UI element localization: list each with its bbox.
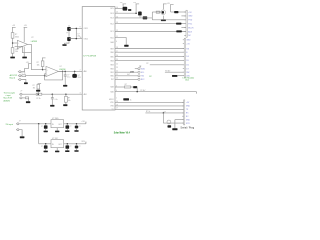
svg-text:C?: C? — [79, 146, 81, 148]
svg-text:DTR: DTR — [186, 123, 190, 125]
svg-text:10k: 10k — [15, 51, 18, 53]
svg-text:GND: GND — [186, 106, 191, 108]
svg-text:C?: C? — [67, 75, 69, 77]
power tap +5V conn — [170, 4, 174, 6]
power tick flag column — [139, 65, 141, 67]
svg-text:RC1: RC1 — [110, 31, 113, 33]
svg-text:SCL: SCL — [141, 72, 144, 74]
svg-text:RB5: RB5 — [110, 56, 113, 58]
wire RC0 stub — [115, 38, 126, 45]
pin J6 +5V — [183, 43, 184, 45]
pin J5 +5V — [184, 11, 186, 13]
svg-text:J?: J? — [20, 90, 22, 92]
svg-text:D4: D4 — [186, 56, 188, 58]
svg-text:MCLR: MCLR — [109, 99, 114, 101]
wire +5V to connector — [170, 5, 172, 12]
wire VDD net — [115, 101, 184, 103]
wire T1 collector — [122, 4, 124, 7]
wire thermo signal — [22, 93, 36, 95]
svg-text:+5V: +5V — [186, 102, 190, 104]
connector J7 body — [184, 100, 185, 125]
svg-text:10k: 10k — [37, 65, 40, 67]
svg-text:1: 1 — [116, 98, 117, 100]
wire R14 out — [131, 86, 134, 88]
resistor R1 — [11, 33, 14, 39]
svg-text:R?: R? — [146, 63, 148, 65]
svg-text:R?: R? — [68, 98, 70, 100]
ground (serial) — [172, 128, 177, 130]
svg-text:+: + — [18, 43, 19, 45]
net flag RX2 — [138, 78, 140, 80]
svg-text:R?: R? — [33, 85, 35, 87]
wire osc mid — [68, 31, 70, 37]
svg-text:330k: 330k — [15, 36, 19, 38]
net +5V flag — [85, 122, 87, 124]
svg-text:PGD: PGD — [188, 20, 193, 22]
power tap bias — [28, 63, 32, 65]
svg-text:RB6: RB6 — [110, 52, 113, 54]
node rail2 — [135, 12, 137, 14]
svg-text:C?: C? — [41, 146, 43, 148]
ferrite L1 — [174, 11, 178, 13]
ground (U1A V-) — [22, 57, 27, 59]
resistor R14 — [124, 86, 130, 88]
pin J6 LED — [183, 75, 184, 77]
wire pin28 stub — [181, 27, 186, 29]
svg-text:+5V: +5V — [186, 43, 190, 45]
svg-text:5V1: 5V1 — [78, 77, 81, 79]
connector J3 pin 2 — [18, 97, 21, 99]
svg-text:SDA: SDA — [141, 67, 145, 70]
svg-text:GND: GND — [188, 16, 193, 18]
wire signal ACS — [26, 75, 45, 77]
wire riser RA3-RA2 — [136, 87, 138, 92]
wire OSC1 — [69, 27, 82, 29]
pin J6 RW — [183, 71, 184, 73]
wire V+ U1A — [23, 27, 25, 42]
ground (C8) — [65, 130, 69, 132]
resistor R6 — [25, 97, 28, 99]
resistor R8 — [65, 94, 67, 96]
svg-text:NC: NC — [188, 35, 191, 37]
wire 9V — [19, 123, 51, 125]
svg-text:RA2: RA2 — [110, 90, 113, 93]
pin J7 +5V — [182, 101, 183, 103]
resistor R10 — [143, 16, 148, 19]
wire osc top link — [69, 27, 76, 29]
capacitor C11 — [66, 144, 68, 146]
wire osc right rail — [75, 28, 77, 38]
wire RB7 net — [115, 48, 184, 50]
svg-text:RW: RW — [186, 72, 189, 74]
svg-text:RA3: RA3 — [110, 86, 113, 89]
ground (C9) — [74, 130, 78, 132]
wire RC2 net — [115, 23, 186, 25]
svg-text:GND: GND — [186, 40, 191, 42]
transistor Q4 — [167, 120, 171, 124]
wire riser to pin 19.8 — [151, 18, 153, 20]
svg-text:0.1u: 0.1u — [67, 77, 70, 79]
ground (C12) — [74, 150, 78, 152]
svg-text:NC: NC — [186, 116, 189, 118]
label bold (wire 31.5) — [176, 30, 182, 32]
svg-text:2: 2 — [80, 70, 81, 72]
svg-text:R?: R? — [125, 84, 127, 86]
capacitor C6 — [51, 94, 53, 98]
power rail +5V tap (U1A V+) — [24, 26, 28, 28]
node cap C11 — [67, 143, 69, 145]
wire R4 lower — [42, 67, 44, 70]
transistor Q2 — [138, 12, 142, 16]
wire to +input U1A — [13, 42, 18, 44]
svg-text:D7: D7 — [186, 68, 188, 70]
net flag SDA — [138, 68, 140, 70]
wire J2-R3 — [21, 75, 22, 77]
svg-text:C?: C? — [70, 146, 72, 148]
connector J3 pin 1 — [18, 93, 21, 95]
resistor R4 — [41, 61, 44, 67]
ground (J3) — [26, 101, 30, 103]
svg-text:Serial / Prog: Serial / Prog — [180, 126, 195, 129]
regulator U3 3.3V — [51, 140, 64, 148]
wire RA3 net — [115, 86, 124, 88]
wire TX net — [115, 108, 184, 110]
svg-text:MCLR: MCLR — [188, 27, 194, 29]
capacitor C9 — [76, 124, 78, 126]
svg-text:+5V: +5V — [188, 12, 192, 14]
svg-text:4k7: 4k7 — [127, 74, 130, 76]
power tap T1 — [123, 3, 127, 5]
wire flag TX2 — [115, 75, 138, 77]
op-amp U1A — [17, 40, 27, 48]
svg-text:1M: 1M — [33, 87, 36, 89]
svg-text:AN0: AN0 — [84, 70, 87, 73]
svg-text:Q?: Q? — [164, 111, 166, 113]
svg-text:9: 9 — [80, 27, 81, 29]
svg-text:GND: GND — [186, 119, 191, 121]
pin J5 NC — [184, 34, 186, 36]
net flag (RC0) — [124, 45, 128, 47]
pin J6 E — [183, 51, 184, 53]
ground (C7) — [44, 131, 48, 133]
node output-D — [74, 71, 76, 73]
svg-text:C?: C? — [41, 126, 43, 128]
svg-text:D?: D? — [78, 75, 80, 77]
svg-text:RB2: RB2 — [110, 68, 113, 70]
power tap rail2 — [136, 3, 140, 5]
connector J4 pin 1 — [15, 123, 18, 125]
wire RC1 net — [115, 31, 186, 33]
wire J3 pin2 — [22, 97, 25, 99]
power tap R4 — [42, 57, 46, 59]
svg-text:+: + — [47, 70, 48, 72]
node cap C7 — [45, 123, 47, 125]
wire -input stub — [15, 45, 18, 47]
svg-text:LCD: LCD — [130, 71, 135, 73]
node cap C12 — [76, 143, 78, 145]
wire riser serial — [162, 113, 164, 123]
node 9V branch — [38, 123, 40, 125]
node thermo-R8 — [65, 93, 67, 95]
wire J2 pin1 to +5V tap — [21, 64, 29, 72]
svg-text:23: 23 — [116, 67, 118, 69]
svg-text:Board: Board — [10, 78, 15, 80]
wire reference from U1A — [31, 53, 42, 70]
pin J6 D7 — [183, 68, 184, 70]
pin J7 DTR — [182, 122, 183, 124]
svg-text:RC3: RC3 — [110, 18, 113, 20]
svg-text:16x2: 16x2 — [185, 80, 189, 82]
ground (C5) — [63, 85, 67, 87]
net tick end — [195, 92, 197, 94]
svg-text:24: 24 — [116, 63, 118, 65]
resistor R3 — [22, 75, 26, 77]
net flag TX2 — [138, 75, 140, 77]
wire 3V3 out — [64, 143, 86, 145]
svg-text:C?: C? — [78, 34, 80, 36]
capacitor C8 — [66, 124, 68, 126]
wire 9V to reg2 — [38, 124, 40, 144]
node output-C — [64, 71, 66, 73]
node feedback — [62, 71, 64, 73]
svg-text:RB7: RB7 — [110, 48, 113, 50]
ground (C11) — [65, 150, 69, 152]
svg-text:AN1: AN1 — [84, 93, 87, 96]
resistor R11 — [156, 11, 159, 13]
svg-text:AUX: AUX — [188, 30, 192, 33]
label GND bold (LCD) — [172, 75, 177, 77]
wire flag RX2 — [115, 78, 138, 80]
svg-text:RC2: RC2 — [110, 23, 113, 25]
label bold (wire 23.7) — [176, 23, 181, 25]
pin J6 RS — [183, 48, 184, 50]
wire RB5 net — [115, 55, 184, 57]
svg-text:AD8495: AD8495 — [4, 99, 11, 102]
ground (Q3) — [161, 19, 166, 21]
pin J5 AUX — [184, 31, 186, 33]
svg-text:6: 6 — [116, 41, 117, 43]
svg-text:+5V: +5V — [81, 121, 85, 123]
pin J6 D6 — [183, 64, 184, 66]
svg-text:3: 3 — [80, 92, 81, 94]
svg-text:LM358: LM358 — [31, 41, 38, 43]
svg-text:TX2: TX2 — [141, 76, 144, 78]
svg-text:D6: D6 — [186, 65, 188, 67]
ground (C6) — [50, 105, 54, 107]
svg-text:OUT: OUT — [58, 124, 61, 126]
svg-text:9V input: 9V input — [6, 123, 14, 126]
svg-text:C?: C? — [79, 126, 81, 128]
svg-text:10: 10 — [80, 37, 82, 39]
svg-text:IC? PIC18F258: IC? PIC18F258 — [83, 55, 96, 57]
wire J4 gnd — [19, 130, 22, 137]
svg-text:OSC1: OSC1 — [84, 28, 88, 30]
ground (rail1) — [10, 57, 15, 59]
ground (R8) — [63, 104, 67, 106]
ground (osc) — [62, 44, 66, 46]
wire flag SDA — [135, 68, 138, 70]
svg-text:U? 7805: U? 7805 — [52, 118, 58, 120]
transistor Q1 — [123, 7, 128, 11]
op-amp U1B — [46, 66, 58, 76]
svg-text:RB1: RB1 — [110, 72, 113, 74]
wire RA2 net long — [115, 91, 196, 93]
power tap Q3 — [163, 3, 167, 5]
pin J6 D5 — [183, 59, 184, 61]
ground (J2) — [24, 82, 28, 84]
wire Q3 base — [152, 11, 161, 13]
IC U4 body — [82, 7, 115, 110]
svg-text:0.1u: 0.1u — [55, 99, 58, 101]
wire RB4 net — [115, 59, 184, 61]
wire J2 pin3 to ground — [21, 80, 26, 83]
svg-text:RC4: RC4 — [110, 13, 113, 15]
wire DTR net — [163, 122, 183, 124]
pin J7 NC — [182, 115, 183, 117]
resistor R9 — [128, 9, 131, 11]
svg-text:RB3: RB3 — [110, 65, 113, 67]
svg-text:Y?: Y? — [66, 32, 68, 34]
connector J2 pin 3 — [18, 79, 19, 81]
wire RC4 net — [115, 12, 136, 14]
connector J5 body — [186, 10, 187, 37]
node serial — [163, 112, 165, 114]
net +3V3 flag — [85, 142, 87, 144]
svg-text:PGC: PGC — [188, 23, 193, 25]
capacitor C10 — [45, 144, 47, 146]
wire pin16 stub — [181, 15, 186, 17]
wire riser to Q3 base — [151, 12, 153, 18]
wire rail1 lower — [12, 53, 14, 56]
svg-text:3V3: 3V3 — [81, 141, 84, 143]
node cap C8 — [67, 123, 69, 125]
ground (U2) — [56, 128, 58, 131]
regulator U2 7805 — [51, 120, 64, 128]
pin J7 RX — [182, 112, 183, 114]
resistor R2 — [11, 48, 14, 54]
svg-text:U?: U? — [60, 66, 62, 68]
node thermo-C — [52, 93, 54, 95]
resistor R5 inline — [36, 93, 42, 95]
node -in U1B — [44, 75, 46, 77]
ground (U3) — [56, 148, 58, 151]
svg-text:U?: U? — [31, 37, 33, 39]
svg-text:RB4: RB4 — [110, 60, 113, 62]
pin J5 PGD — [184, 19, 186, 21]
wire feedback U1B — [45, 71, 63, 80]
wire RC3 net — [115, 17, 152, 19]
net flag (MCLR) — [123, 98, 129, 100]
wire osc gnd — [65, 41, 70, 44]
svg-text:I2C: I2C — [149, 76, 152, 78]
wire U1B output to IC — [58, 70, 82, 72]
wire serial gnd — [175, 119, 184, 121]
capacitor C12 — [76, 144, 78, 146]
pin J5 GND — [184, 15, 186, 17]
svg-text:D5: D5 — [186, 60, 188, 62]
wire flag SCL — [115, 71, 138, 73]
svg-text:Max 28.3V: Max 28.3V — [4, 97, 13, 99]
pin J7 GND — [182, 105, 183, 107]
capacitor C5 — [64, 71, 66, 75]
pin J6 D4 — [183, 55, 184, 57]
svg-text:+5V: +5V — [24, 25, 28, 27]
wire base T1 — [115, 8, 123, 10]
net flag (RA3) — [133, 86, 137, 88]
svg-text:RC0: RC0 — [110, 37, 113, 39]
svg-text:J?: J? — [19, 120, 21, 122]
svg-text:1k: 1k — [130, 99, 132, 101]
svg-text:ACS712: ACS712 — [10, 74, 18, 77]
pin J7 GND — [182, 119, 183, 121]
svg-text:E: E — [186, 52, 188, 54]
wire to +input U1B — [43, 69, 46, 71]
ground (C10) — [44, 151, 48, 153]
svg-text:VSS: VSS — [110, 106, 113, 108]
crystal Y1 — [67, 27, 71, 31]
wire LED cathode — [178, 75, 185, 77]
svg-text:R? 1k: R? 1k — [36, 98, 40, 100]
svg-text:Solar Meter V0.4: Solar Meter V0.4 — [114, 131, 130, 135]
diode D1 — [74, 71, 76, 74]
wire osc bottom link — [69, 38, 76, 40]
wire thermo signal 2 — [42, 93, 82, 95]
wire rail2 down — [135, 4, 137, 13]
wire V- U1A — [23, 47, 25, 57]
capacitor C13 — [67, 37, 71, 41]
svg-text:IN: IN — [52, 144, 54, 146]
svg-text:VDD: VDD — [110, 102, 114, 104]
svg-text:OSC2: OSC2 — [84, 38, 88, 40]
wire RB6 net — [115, 51, 184, 53]
wire R4 upper — [42, 58, 44, 61]
wire 5V out — [64, 123, 86, 125]
svg-text:RX: RX — [186, 113, 189, 115]
svg-text:OUT: OUT — [58, 144, 61, 146]
node thermo-R7 — [37, 93, 39, 95]
node divider junction — [12, 42, 14, 44]
svg-text:RX2: RX2 — [141, 79, 144, 81]
connector J2 pin 1 — [18, 71, 19, 73]
wire Q3 emitter — [163, 16, 165, 20]
svg-text:RC5: RC5 — [110, 8, 113, 10]
svg-text:R? 4k7: R? 4k7 — [140, 90, 145, 92]
wire feedback loop U1A — [17, 44, 31, 52]
svg-text:TX: TX — [186, 109, 189, 111]
svg-text:RS: RS — [186, 48, 189, 50]
svg-text:RA4: RA4 — [110, 41, 113, 44]
pin J7 TX — [182, 108, 183, 110]
node +in network — [42, 69, 44, 71]
connector J4 pin 2 — [15, 129, 18, 131]
pull-up R7 — [38, 83, 42, 85]
svg-text:U? 1117: U? 1117 — [52, 138, 58, 140]
svg-text:+5V: +5V — [12, 25, 16, 27]
wire VSS net — [115, 105, 184, 107]
power rail +5V tap (left) — [12, 26, 16, 28]
transistor Q3 — [161, 10, 166, 15]
ground (J4) — [20, 136, 25, 138]
wire rail1 upper — [12, 27, 14, 32]
pin J5 MCLR — [184, 27, 186, 29]
wire to ground J3 — [28, 98, 30, 101]
svg-text:IN: IN — [52, 124, 54, 126]
wire -in U1B — [45, 74, 46, 76]
wire rail1 mid — [12, 38, 14, 47]
node cap C10 — [45, 143, 47, 145]
wire OSC2 — [69, 38, 82, 40]
connector J2 pin 2 — [18, 75, 19, 77]
